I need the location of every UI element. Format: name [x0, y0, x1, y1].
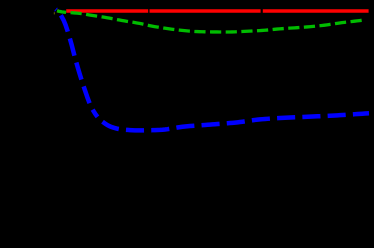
origin overlap artifact: [54, 12, 55, 14]
blue dashed series tail segment: [98, 113, 370, 130]
green dashed series: [57, 11, 365, 32]
blue dashed series steep segment: [56, 9, 98, 117]
red series (long dashes): [58, 9, 369, 12]
